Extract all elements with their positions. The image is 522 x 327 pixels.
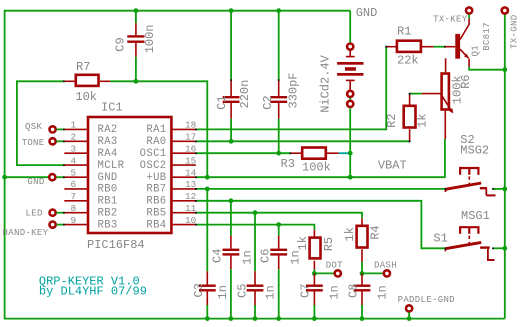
svg-text:1k: 1k <box>416 113 430 127</box>
svg-text:RB1: RB1 <box>98 196 118 208</box>
IC1 pin names right column <box>140 124 167 231</box>
svg-text:RB7: RB7 <box>146 184 166 196</box>
svg-text:HAND-KEY: HAND-KEY <box>3 228 49 238</box>
junction +UB at +5V column <box>205 175 210 180</box>
svg-text:C9: C9 <box>114 37 128 51</box>
wire RB7 row 13 to S2 <box>196 188 446 190</box>
svg-text:GND: GND <box>27 177 44 187</box>
resistor R5 1k <box>296 230 336 274</box>
svg-text:RA3: RA3 <box>98 136 118 148</box>
svg-text:GND: GND <box>98 172 118 184</box>
wire Q1 emitter to right rail <box>469 67 505 69</box>
IC1 pin numbers right <box>185 120 197 226</box>
svg-text:C1: C1 <box>215 95 229 109</box>
capacitor C7 1n <box>299 273 342 321</box>
net label VBAT <box>378 159 407 173</box>
svg-text:R2: R2 <box>385 113 399 127</box>
svg-text:9: 9 <box>71 215 77 226</box>
svg-text:3: 3 <box>71 144 77 155</box>
wire cyan segment R3 to VBAT column <box>339 152 348 154</box>
svg-text:7: 7 <box>71 191 77 202</box>
wire RB4 row 10 to R5 <box>196 225 315 230</box>
IC IC1 PIC16F84 <box>87 101 171 252</box>
wire +UB/VBAT rail row 14 to R6 bottom <box>196 139 445 177</box>
svg-text:RA4: RA4 <box>98 148 118 160</box>
pad PADDLE-GND <box>398 295 455 321</box>
wire RA1 row 18 up to R1 <box>196 47 388 130</box>
svg-text:15: 15 <box>185 155 197 166</box>
junction S2 on right rail <box>502 187 507 192</box>
wire OSC1 row 16 to R3 <box>196 152 290 154</box>
svg-text:R5: R5 <box>322 237 336 251</box>
svg-text:RB3: RB3 <box>98 219 118 231</box>
junction DASH node <box>360 271 365 276</box>
svg-text:RB6: RB6 <box>146 196 166 208</box>
title text QRP-KEYER <box>39 275 147 299</box>
svg-text:C2: C2 <box>261 95 275 109</box>
svg-text:220n: 220n <box>238 80 252 109</box>
wire RA0 row 17 to R2 bottom <box>196 140 410 142</box>
svg-text:RB0: RB0 <box>98 184 118 196</box>
svg-text:1n: 1n <box>216 285 230 299</box>
svg-text:1n: 1n <box>328 285 342 299</box>
svg-text:TX-GND: TX-GND <box>510 15 520 49</box>
capacitor C6 1n <box>259 225 303 321</box>
svg-text:C8: C8 <box>346 284 360 298</box>
pad DASH <box>362 261 397 277</box>
capacitor C9 100n <box>114 11 158 82</box>
capacitor C2 330pF <box>261 8 301 155</box>
svg-text:6: 6 <box>71 179 77 190</box>
svg-text:MSG1: MSG1 <box>461 209 490 223</box>
wire GND frame top rail <box>5 10 351 12</box>
svg-text:NiCd2.4V: NiCd2.4V <box>318 54 332 112</box>
pad TX-GND <box>502 7 520 49</box>
wire S2 to right rail <box>493 188 505 190</box>
switch S2 MSG2 <box>445 133 495 195</box>
svg-text:LED: LED <box>26 209 43 219</box>
svg-text:MSG2: MSG2 <box>460 144 489 158</box>
svg-text:17: 17 <box>185 132 196 143</box>
svg-text:RA0: RA0 <box>146 136 166 148</box>
junction row 13 at C3 column <box>205 187 210 192</box>
svg-text:RA1: RA1 <box>146 124 166 136</box>
svg-text:5: 5 <box>71 167 77 178</box>
svg-text:C6: C6 <box>259 249 273 263</box>
capacitor C1 220n <box>215 8 252 143</box>
battery NiCd2.4V <box>318 11 363 178</box>
junction DOT node <box>312 271 317 276</box>
svg-text:1: 1 <box>71 120 77 131</box>
svg-text:C5: C5 <box>235 284 249 298</box>
svg-text:DASH: DASH <box>374 261 397 271</box>
svg-text:R4: R4 <box>369 225 383 239</box>
junction emitter on right rail <box>502 67 507 72</box>
wire R2 top to R6 wiper <box>410 93 422 95</box>
svg-text:GND: GND <box>356 6 378 20</box>
pad QSK pin 1 <box>25 122 64 133</box>
junction row 11 at C5 column <box>253 210 258 215</box>
pad TONE pin 2 <box>22 138 65 148</box>
svg-text:Q1: Q1 <box>470 45 480 56</box>
svg-text:14: 14 <box>185 167 197 178</box>
svg-text:R6: R6 <box>459 74 473 88</box>
junction at C9 bottom on +5V rail <box>134 79 139 84</box>
svg-text:12: 12 <box>185 191 196 202</box>
svg-text:OSC2: OSC2 <box>140 160 167 172</box>
svg-text:1k: 1k <box>343 227 357 241</box>
wire +5V rail from R7 right to +UB column <box>110 81 207 177</box>
resistor R1 22k <box>386 25 433 68</box>
svg-text:S1: S1 <box>433 232 447 246</box>
svg-text:C3: C3 <box>192 283 206 297</box>
svg-text:1n: 1n <box>264 285 278 299</box>
wire RB5 row 11 to R4 <box>196 213 362 219</box>
pad GND pin 5 with wire from left rail <box>2 174 64 187</box>
svg-text:18: 18 <box>185 120 197 131</box>
junction blips wire-pin joins <box>63 46 494 249</box>
svg-text:2: 2 <box>71 132 77 143</box>
wire S1 to right rail <box>493 247 505 249</box>
svg-text:22k: 22k <box>397 53 419 67</box>
svg-text:DOT: DOT <box>326 261 343 271</box>
svg-text:100k: 100k <box>302 161 331 175</box>
svg-text:PADDLE-GND: PADDLE-GND <box>398 295 455 305</box>
wire GND right rail from TX-GND pad <box>504 14 506 318</box>
junction row 10 at C6 column <box>276 222 281 227</box>
svg-text:TONE: TONE <box>22 138 45 148</box>
svg-text:QSK: QSK <box>25 122 42 132</box>
svg-text:PIC16F84: PIC16F84 <box>87 238 145 252</box>
potentiometer R6 100k <box>422 58 473 139</box>
IC1 left pins 1-9 <box>64 129 87 224</box>
svg-text:RB4: RB4 <box>146 219 166 231</box>
svg-text:IC1: IC1 <box>101 101 123 115</box>
junction battery/R3 on VBAT column <box>348 151 353 156</box>
svg-text:+UB: +UB <box>146 172 166 184</box>
junction row 12 at C4 column <box>229 198 234 203</box>
IC1 pin names left column <box>98 124 125 231</box>
transistor Q1 BC817 <box>445 18 492 67</box>
junction S1 on right rail <box>502 246 507 251</box>
svg-text:16: 16 <box>185 144 197 155</box>
wire GND frame left rail <box>4 10 6 320</box>
wire GND frame bottom rail <box>5 318 505 320</box>
capacitor C5 1n <box>235 213 277 321</box>
svg-text:RA2: RA2 <box>98 124 118 136</box>
capacitor C8 1n <box>346 273 389 321</box>
svg-text:11: 11 <box>185 203 197 214</box>
resistor R4 1k <box>343 218 383 273</box>
junction C9 top on GND rail <box>134 8 139 13</box>
wire R1 to Q1 base <box>434 46 445 48</box>
pad TX-KEY <box>433 7 472 24</box>
svg-text:MCLR: MCLR <box>98 160 125 172</box>
svg-text:OSC1: OSC1 <box>140 148 167 160</box>
svg-text:100n: 100n <box>143 24 157 53</box>
svg-text:RB5: RB5 <box>146 207 166 219</box>
svg-text:1n: 1n <box>240 250 254 264</box>
wire RB6 row 12 to S1 <box>196 201 446 249</box>
capacitor C4 1n <box>210 201 254 321</box>
IC1 right pins 18-10 <box>171 129 196 224</box>
svg-text:13: 13 <box>185 179 197 190</box>
capacitor C3 1n <box>192 189 230 321</box>
svg-text:1n: 1n <box>289 250 303 264</box>
svg-text:TX-KEY: TX-KEY <box>433 15 468 25</box>
svg-text:R7: R7 <box>76 60 90 74</box>
wire R7 row to MCLR: left, down, right to pin 4 <box>17 81 64 165</box>
svg-text:R3: R3 <box>281 157 295 171</box>
svg-text:by DL4YHF 07/99: by DL4YHF 07/99 <box>39 284 147 298</box>
IC1 pin numbers left <box>71 120 77 226</box>
resistor R3 100k <box>281 148 339 175</box>
switch S1 MSG1 <box>433 209 494 260</box>
svg-text:8: 8 <box>71 203 77 214</box>
svg-text:C4: C4 <box>210 249 224 263</box>
pad HAND-KEY pin 9 <box>3 222 65 238</box>
svg-text:R1: R1 <box>397 25 411 39</box>
svg-text:RB2: RB2 <box>98 207 118 219</box>
svg-text:1n: 1n <box>375 285 389 299</box>
svg-text:10: 10 <box>185 215 197 226</box>
svg-text:BC817: BC817 <box>482 22 492 51</box>
resistor R7 10k <box>64 60 110 104</box>
svg-text:10k: 10k <box>75 90 97 104</box>
pad LED pin 8 <box>26 209 65 219</box>
svg-text:1k: 1k <box>296 236 310 250</box>
svg-text:C7: C7 <box>299 284 313 298</box>
pad DOT <box>314 261 343 277</box>
svg-text:330pF: 330pF <box>287 72 301 108</box>
svg-text:4: 4 <box>71 155 77 166</box>
resistor R2 1k <box>385 94 430 142</box>
junction battery on +UB rail <box>348 175 353 180</box>
svg-text:VBAT: VBAT <box>378 159 407 173</box>
net label GND top <box>356 6 378 20</box>
